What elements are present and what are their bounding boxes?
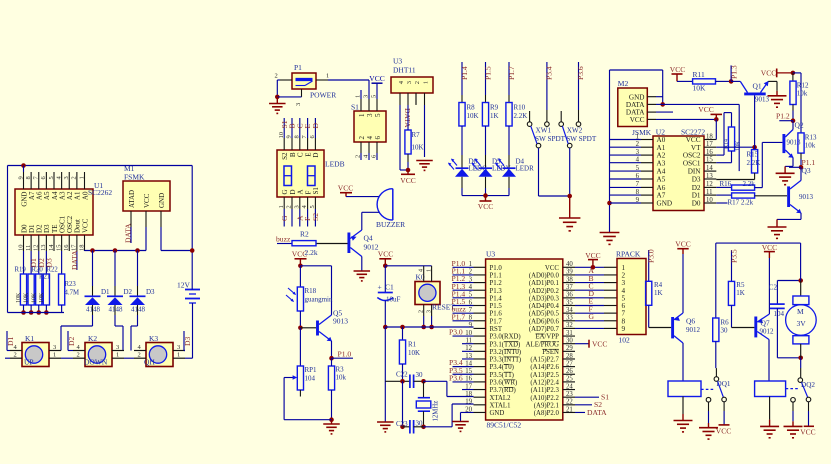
- svg-text:10K: 10K: [736, 140, 742, 151]
- svg-text:4: 4: [636, 157, 640, 164]
- svg-text:C1: C1: [385, 283, 394, 292]
- svg-text:37: 37: [566, 284, 573, 291]
- svg-text:DIN: DIN: [688, 168, 702, 176]
- svg-text:13: 13: [40, 245, 47, 252]
- svg-text:UP: UP: [24, 358, 34, 367]
- svg-text:P1.5: P1.5: [490, 303, 503, 310]
- svg-text:4148: 4148: [109, 306, 124, 314]
- svg-text:102: 102: [619, 336, 631, 345]
- svg-text:A4: A4: [657, 168, 666, 176]
- svg-text:3: 3: [293, 205, 300, 208]
- svg-text:9012: 9012: [760, 328, 775, 336]
- svg-text:P3.4(T0): P3.4(T0): [490, 364, 514, 371]
- svg-text:13: 13: [706, 173, 713, 180]
- svg-text:P3.7(RD): P3.7(RD): [490, 387, 516, 394]
- svg-text:R5: R5: [736, 281, 745, 289]
- svg-text:VCC: VCC: [630, 116, 645, 124]
- svg-text:6: 6: [374, 136, 382, 140]
- svg-text:22: 22: [566, 399, 573, 406]
- svg-text:SW SPDT: SW SPDT: [535, 135, 566, 143]
- svg-text:R11: R11: [693, 70, 705, 79]
- svg-text:26: 26: [566, 368, 573, 375]
- svg-text:(AD5)P0.5: (AD5)P0.5: [529, 311, 560, 318]
- svg-text:S1: S1: [351, 103, 359, 112]
- svg-text:1: 1: [426, 269, 432, 272]
- svg-text:C23: C23: [396, 420, 408, 428]
- svg-text:14: 14: [48, 244, 55, 251]
- svg-text:R13: R13: [805, 134, 817, 142]
- svg-text:K2: K2: [88, 334, 97, 343]
- svg-text:OSC1: OSC1: [683, 159, 701, 167]
- svg-text:P1.0: P1.0: [338, 350, 352, 359]
- svg-text:2.2K: 2.2K: [747, 159, 761, 167]
- svg-text:1K: 1K: [654, 289, 663, 297]
- svg-text:18: 18: [78, 245, 85, 252]
- svg-text:10K: 10K: [693, 84, 707, 93]
- svg-text:10: 10: [278, 132, 285, 139]
- svg-text:RST: RST: [490, 326, 503, 333]
- svg-text:P3.6: P3.6: [449, 374, 463, 383]
- svg-text:D1: D1: [692, 192, 701, 200]
- svg-text:QH: QH: [144, 358, 155, 367]
- svg-text:PSEN: PSEN: [542, 349, 559, 356]
- svg-text:(A11)P2.3: (A11)P2.3: [531, 387, 560, 394]
- svg-text:(A8)P2.0: (A8)P2.0: [534, 410, 560, 417]
- svg-text:6: 6: [636, 173, 640, 180]
- svg-text:19: 19: [465, 399, 472, 406]
- svg-text:10K: 10K: [408, 349, 420, 357]
- svg-text:R15: R15: [747, 151, 759, 159]
- svg-text:12V: 12V: [177, 281, 191, 290]
- svg-text:A: A: [297, 189, 305, 194]
- svg-text:(AD1)P0.1: (AD1)P0.1: [529, 280, 559, 287]
- svg-text:12MHz: 12MHz: [433, 401, 440, 422]
- svg-text:8: 8: [293, 135, 300, 138]
- svg-text:GND: GND: [158, 193, 166, 208]
- svg-text:Q2: Q2: [795, 121, 804, 130]
- svg-text:VCC: VCC: [716, 427, 731, 436]
- svg-text:A7: A7: [657, 192, 666, 200]
- svg-text:G: G: [280, 215, 289, 221]
- svg-text:B: B: [289, 152, 297, 157]
- svg-text:2: 2: [275, 73, 278, 80]
- svg-text:D0: D0: [692, 200, 701, 208]
- svg-text:P3.5: P3.5: [730, 249, 739, 263]
- svg-text:D: D: [311, 123, 320, 129]
- svg-text:1K: 1K: [490, 112, 499, 120]
- svg-text:A3: A3: [657, 159, 666, 167]
- svg-text:M2: M2: [618, 79, 629, 88]
- svg-text:DATA: DATA: [70, 250, 79, 270]
- svg-text:VCC: VCC: [292, 250, 307, 259]
- svg-text:(A13)P2.5: (A13)P2.5: [530, 372, 559, 379]
- svg-text:10K: 10K: [24, 292, 30, 303]
- svg-text:P3.6(WR): P3.6(WR): [490, 380, 518, 387]
- svg-text:LEDR: LEDR: [516, 165, 535, 173]
- svg-text:(AD6)P0.6: (AD6)P0.6: [529, 318, 560, 325]
- svg-text:GND: GND: [490, 410, 505, 417]
- svg-text:D1: D1: [6, 337, 15, 346]
- svg-text:3: 3: [177, 344, 180, 351]
- svg-text:15: 15: [55, 245, 62, 252]
- svg-text:12: 12: [33, 245, 40, 252]
- svg-text:POWER: POWER: [310, 91, 336, 100]
- svg-text:A1: A1: [657, 144, 666, 152]
- svg-text:2: 2: [358, 136, 366, 140]
- svg-text:RPACK: RPACK: [616, 250, 641, 259]
- svg-text:2: 2: [14, 352, 17, 359]
- svg-text:DOWN: DOWN: [84, 358, 108, 367]
- svg-text:(A10)P2.2: (A10)P2.2: [530, 395, 559, 402]
- svg-text:P1.4: P1.4: [460, 66, 469, 80]
- svg-text:9013: 9013: [787, 139, 802, 147]
- svg-text:P3.4: P3.4: [545, 66, 554, 80]
- svg-text:9012: 9012: [686, 326, 701, 334]
- svg-text:VCC: VCC: [338, 184, 353, 193]
- svg-text:21: 21: [566, 406, 573, 413]
- svg-text:C22: C22: [396, 371, 408, 379]
- svg-text:4.7M: 4.7M: [65, 290, 80, 297]
- svg-text:XTAL2: XTAL2: [490, 395, 512, 402]
- svg-text:K1: K1: [25, 334, 34, 343]
- svg-text:P1.7: P1.7: [490, 318, 503, 325]
- svg-text:VCC: VCC: [585, 251, 600, 260]
- svg-text:9013: 9013: [755, 96, 770, 104]
- svg-text:16: 16: [706, 149, 713, 156]
- svg-text:2.2k: 2.2k: [743, 180, 756, 188]
- svg-text:30: 30: [416, 371, 424, 379]
- svg-text:D2: D2: [67, 337, 76, 346]
- svg-text:1: 1: [78, 176, 85, 179]
- svg-text:M: M: [797, 307, 804, 316]
- svg-text:29: 29: [566, 345, 573, 352]
- svg-text:Q1: Q1: [753, 82, 762, 91]
- svg-text:25: 25: [566, 376, 573, 383]
- svg-text:P3.3(INT1): P3.3(INT1): [490, 357, 522, 364]
- svg-text:Q7: Q7: [761, 319, 770, 328]
- svg-text:9: 9: [636, 197, 640, 204]
- svg-text:R12: R12: [797, 82, 809, 90]
- svg-text:P3.2(INT0): P3.2(INT0): [490, 349, 522, 356]
- svg-text:2: 2: [77, 352, 80, 359]
- svg-text:R17 2.2k: R17 2.2k: [728, 199, 754, 207]
- svg-text:3: 3: [116, 344, 119, 351]
- svg-text:10: 10: [706, 197, 713, 204]
- svg-text:VCC: VCC: [400, 176, 415, 185]
- svg-text:3: 3: [366, 113, 374, 117]
- svg-text:(A12)P2.4: (A12)P2.4: [530, 380, 559, 387]
- svg-text:28: 28: [566, 353, 573, 360]
- svg-text:DATA: DATA: [403, 108, 412, 128]
- svg-text:guangmin: guangmin: [305, 296, 333, 304]
- svg-text:ALE/PROG: ALE/PROG: [526, 341, 559, 348]
- svg-text:R18: R18: [305, 287, 317, 295]
- svg-text:10uF: 10uF: [386, 296, 401, 304]
- svg-text:VCC: VCC: [800, 427, 815, 436]
- svg-text:P1.0: P1.0: [490, 265, 503, 272]
- svg-text:104: 104: [774, 310, 785, 318]
- svg-text:32: 32: [566, 322, 573, 329]
- svg-text:14: 14: [706, 165, 713, 172]
- svg-text:P1.4: P1.4: [490, 295, 503, 302]
- svg-text:40: 40: [566, 261, 573, 268]
- svg-text:DQ1: DQ1: [717, 380, 731, 388]
- svg-text:31: 31: [566, 330, 573, 337]
- svg-text:R7: R7: [412, 131, 421, 139]
- svg-text:10K: 10K: [16, 292, 22, 303]
- svg-text:VCC: VCC: [369, 74, 384, 83]
- svg-text:F: F: [304, 191, 312, 195]
- svg-text:9: 9: [17, 176, 24, 179]
- svg-text:P1.2: P1.2: [490, 280, 503, 287]
- svg-text:SC2262: SC2262: [88, 188, 112, 197]
- svg-text:ATAD: ATAD: [128, 190, 136, 208]
- svg-text:3: 3: [406, 81, 413, 84]
- svg-text:1: 1: [53, 352, 56, 359]
- svg-text:Q3: Q3: [802, 166, 811, 175]
- svg-text:R3: R3: [336, 366, 345, 374]
- svg-text:P3.5(T1): P3.5(T1): [490, 372, 514, 379]
- svg-text:4: 4: [366, 136, 374, 140]
- svg-text:18: 18: [706, 133, 713, 140]
- svg-text:EA/VPP: EA/VPP: [535, 334, 559, 341]
- svg-text:5: 5: [309, 205, 316, 208]
- svg-text:3: 3: [53, 344, 56, 351]
- svg-text:15: 15: [706, 157, 713, 164]
- svg-text:A5: A5: [657, 176, 666, 184]
- svg-text:G: G: [281, 189, 289, 194]
- svg-text:D3: D3: [183, 337, 192, 346]
- svg-text:VCC: VCC: [545, 265, 559, 272]
- svg-text:2: 2: [419, 310, 425, 313]
- svg-text:DATA: DATA: [123, 223, 132, 243]
- svg-text:LEDB: LEDB: [325, 160, 345, 169]
- svg-text:1: 1: [358, 113, 366, 117]
- svg-text:9: 9: [469, 322, 473, 329]
- svg-text:SW SPDT: SW SPDT: [566, 135, 597, 143]
- svg-text:U3: U3: [486, 250, 495, 259]
- svg-text:U3: U3: [393, 57, 402, 66]
- svg-text:S2: S2: [311, 213, 320, 221]
- svg-text:P1.7: P1.7: [452, 312, 466, 321]
- svg-text:P1.3: P1.3: [490, 288, 503, 295]
- svg-text:DATA: DATA: [587, 408, 607, 417]
- svg-text:4148: 4148: [86, 306, 101, 314]
- svg-text:DHT11: DHT11: [393, 66, 416, 75]
- svg-text:10: 10: [17, 245, 24, 252]
- svg-text:89C51/C52: 89C51/C52: [487, 421, 522, 430]
- svg-text:5: 5: [636, 165, 640, 172]
- svg-text:1: 1: [636, 133, 639, 140]
- svg-text:P1.2: P1.2: [776, 111, 790, 120]
- svg-text:104: 104: [305, 375, 316, 383]
- svg-text:1: 1: [278, 205, 285, 208]
- svg-text:D2: D2: [124, 288, 133, 296]
- svg-text:1K: 1K: [736, 289, 745, 297]
- svg-text:2: 2: [414, 81, 421, 84]
- svg-text:12: 12: [706, 181, 713, 188]
- svg-text:30: 30: [721, 327, 729, 335]
- svg-text:9013: 9013: [333, 317, 348, 326]
- svg-text:18: 18: [465, 391, 472, 398]
- svg-text:Q6: Q6: [686, 317, 695, 326]
- svg-text:10K: 10K: [412, 144, 424, 152]
- svg-text:P3.6: P3.6: [576, 66, 585, 80]
- svg-text:17: 17: [71, 244, 78, 251]
- svg-text:4: 4: [419, 269, 425, 272]
- svg-text:G: G: [589, 312, 595, 321]
- svg-text:9013: 9013: [799, 193, 814, 201]
- svg-text:11: 11: [25, 245, 32, 251]
- svg-text:8: 8: [25, 176, 32, 179]
- svg-text:buzz: buzz: [276, 235, 291, 244]
- svg-text:10k: 10k: [797, 90, 808, 98]
- svg-text:P1.5: P1.5: [484, 66, 493, 80]
- svg-text:R1: R1: [408, 341, 417, 349]
- svg-text:4148: 4148: [131, 306, 146, 314]
- svg-text:GND: GND: [657, 200, 673, 208]
- svg-text:7: 7: [636, 181, 640, 188]
- svg-text:10K: 10K: [39, 292, 45, 303]
- svg-text:(AD0)P0.0: (AD0)P0.0: [529, 273, 560, 280]
- svg-text:S2: S2: [281, 152, 289, 160]
- svg-text:D: D: [312, 153, 320, 158]
- svg-text:VCC: VCC: [81, 218, 89, 233]
- svg-text:RP1: RP1: [305, 366, 318, 374]
- svg-text:D: D: [289, 189, 297, 194]
- svg-text:C: C: [297, 152, 305, 157]
- svg-text:R4: R4: [654, 281, 663, 289]
- svg-text:1: 1: [177, 352, 180, 359]
- svg-text:R19: R19: [15, 267, 27, 274]
- svg-text:2: 2: [71, 176, 78, 179]
- svg-text:10K: 10K: [467, 112, 479, 120]
- svg-text:VCC: VCC: [761, 68, 776, 77]
- svg-text:(A9)P2.1: (A9)P2.1: [534, 402, 559, 409]
- svg-text:VCC: VCC: [762, 243, 777, 252]
- svg-text:(AD4)P0.4: (AD4)P0.4: [529, 303, 560, 310]
- svg-text:DQ2: DQ2: [801, 381, 815, 389]
- svg-text:(AD7)P0.7: (AD7)P0.7: [529, 326, 560, 333]
- svg-text:1: 1: [326, 73, 329, 80]
- svg-text:16: 16: [63, 244, 70, 251]
- svg-text:R6: R6: [721, 319, 730, 327]
- svg-text:P1.1: P1.1: [490, 273, 502, 280]
- svg-text:2.2K: 2.2K: [514, 112, 528, 120]
- svg-text:Q4: Q4: [364, 234, 373, 243]
- svg-text:8: 8: [636, 189, 640, 196]
- svg-text:27: 27: [566, 360, 573, 367]
- svg-text:D3: D3: [146, 288, 155, 296]
- svg-text:K3: K3: [149, 334, 158, 343]
- svg-text:D3: D3: [692, 176, 701, 184]
- svg-text:P1.6: P1.6: [490, 311, 503, 318]
- svg-text:BUZZER: BUZZER: [376, 220, 405, 229]
- svg-text:5: 5: [48, 176, 55, 179]
- svg-text:VCC: VCC: [378, 250, 393, 259]
- svg-text:P1: P1: [294, 63, 302, 72]
- svg-text:3: 3: [63, 176, 70, 179]
- svg-text:FSMK: FSMK: [124, 173, 145, 182]
- svg-text:2: 2: [138, 352, 141, 359]
- svg-text:36: 36: [566, 292, 573, 299]
- svg-text:10k: 10k: [336, 374, 347, 382]
- svg-text:A0: A0: [81, 191, 89, 200]
- svg-text:C2: C2: [769, 284, 778, 292]
- svg-text:1: 1: [116, 352, 119, 359]
- svg-text:17: 17: [706, 141, 713, 148]
- svg-text:2: 2: [286, 205, 293, 208]
- svg-text:35: 35: [566, 299, 573, 306]
- svg-text:P3.0(RXD): P3.0(RXD): [490, 334, 521, 341]
- svg-text:(AD2)P0.2: (AD2)P0.2: [529, 288, 560, 295]
- svg-text:XW2: XW2: [567, 127, 583, 135]
- svg-text:10k: 10k: [805, 142, 816, 150]
- svg-text:9012: 9012: [364, 243, 379, 252]
- svg-text:9: 9: [622, 325, 626, 333]
- svg-text:5: 5: [371, 95, 378, 98]
- svg-text:R23: R23: [65, 281, 77, 288]
- svg-text:XTAL1: XTAL1: [490, 402, 511, 409]
- svg-text:P3.0: P3.0: [647, 249, 656, 263]
- svg-text:33: 33: [566, 315, 573, 322]
- svg-text:D1: D1: [101, 288, 110, 296]
- svg-text:(A15)P2.7: (A15)P2.7: [530, 357, 559, 364]
- svg-text:VCC: VCC: [592, 339, 607, 348]
- svg-text:VCC: VCC: [670, 65, 685, 74]
- svg-text:S1: S1: [312, 187, 320, 195]
- svg-text:VCC: VCC: [478, 202, 493, 211]
- svg-text:(A14)P2.6: (A14)P2.6: [530, 364, 559, 371]
- svg-text:5: 5: [374, 113, 382, 117]
- svg-text:P3.1(TXD): P3.1(TXD): [490, 341, 521, 348]
- svg-text:23: 23: [566, 391, 573, 398]
- svg-text:R10: R10: [514, 104, 526, 112]
- svg-text:R21: R21: [39, 274, 50, 281]
- svg-text:3V: 3V: [797, 319, 807, 328]
- svg-text:39: 39: [566, 269, 573, 276]
- svg-text:24: 24: [566, 383, 573, 390]
- svg-text:38: 38: [566, 276, 573, 283]
- svg-text:VCC: VCC: [698, 105, 713, 114]
- svg-text:R2: R2: [300, 230, 309, 239]
- svg-text:VT: VT: [691, 144, 701, 152]
- svg-text:1: 1: [422, 81, 429, 84]
- svg-text:E: E: [304, 153, 312, 157]
- svg-text:3: 3: [295, 103, 302, 106]
- svg-text:R16: R16: [720, 180, 732, 188]
- svg-text:10K: 10K: [31, 292, 37, 303]
- svg-text:9: 9: [286, 135, 293, 138]
- svg-text:S1: S1: [601, 393, 609, 402]
- svg-text:D3: D3: [44, 258, 53, 267]
- svg-text:P1.7: P1.7: [507, 66, 516, 80]
- svg-text:P3.0: P3.0: [449, 328, 463, 337]
- svg-text:VCC: VCC: [675, 240, 690, 249]
- svg-text:R9: R9: [490, 104, 499, 112]
- svg-text:P1.3: P1.3: [729, 65, 738, 79]
- svg-text:XW1: XW1: [536, 127, 552, 135]
- svg-text:3: 3: [636, 149, 640, 156]
- svg-text:(AD3)P0.3: (AD3)P0.3: [529, 295, 560, 302]
- svg-text:2: 2: [355, 155, 362, 158]
- svg-text:11: 11: [706, 189, 713, 196]
- svg-text:2: 2: [636, 141, 640, 148]
- svg-text:+: +: [378, 283, 382, 292]
- svg-text:VCC: VCC: [143, 193, 151, 208]
- svg-text:34: 34: [566, 307, 573, 314]
- svg-text:30: 30: [566, 338, 573, 345]
